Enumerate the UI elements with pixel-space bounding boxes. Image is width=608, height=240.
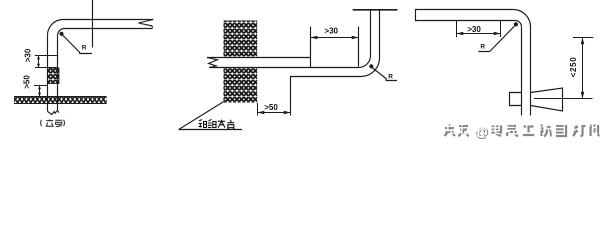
dimension line >30 horizontal [311, 37, 359, 39]
dimension >50 below wall [258, 103, 291, 116]
wire: pipe bottom line to bend [209, 67, 358, 69]
bell mouth (horn) on riser [531, 88, 563, 111]
dimension >30 [457, 21, 501, 37]
svg-text:>30: >30 [24, 48, 33, 62]
node: leader dot on bend [514, 22, 518, 26]
bottom reference line [534, 98, 593, 100]
pipe outer bend arc to riser [361, 58, 380, 77]
dimension line [582, 38, 584, 99]
wire: riser left line [370, 10, 372, 55]
pipe break symbol left end [207, 58, 218, 68]
node: leader dot on bend [59, 32, 63, 36]
svg-text:<250: <250 [569, 57, 578, 78]
leader line to bend radius R [372, 68, 397, 81]
svg-text:>50: >50 [23, 75, 32, 89]
pipe end cap left [415, 9, 417, 21]
dimension arrows >50 [38, 86, 41, 97]
floor slab band [14, 97, 107, 104]
leader line to bend radius R [478, 26, 514, 52]
svg-text:>30: >30 [467, 25, 481, 34]
insulating support block on riser [48, 68, 60, 84]
ceiling slab line [353, 9, 398, 11]
svg-text:R: R [388, 74, 393, 81]
wire: lower pipe outer line [291, 77, 362, 113]
svg-text:>50: >50 [264, 103, 278, 112]
wire: riser right line [530, 27, 532, 116]
pipe end cap / extension at sleeve end [310, 27, 312, 68]
junction box on riser [510, 93, 522, 106]
wire: top pipe lower line [416, 20, 516, 22]
wall hatch upper part [224, 21, 258, 58]
hanger rod vertical line [92, 0, 94, 48]
tick line middle (support top) [35, 67, 58, 69]
wire: pipe top line through wall [207, 57, 311, 59]
node: leader dot on bend [369, 64, 373, 68]
wire: riser left line [521, 27, 523, 116]
wire: horizontal pipe top line [62, 19, 153, 21]
pipe inner bend arc [516, 21, 522, 27]
leader line to bend radius R [63, 35, 93, 54]
tick line upper (bend tangent) [35, 55, 58, 57]
svg-text:R: R [480, 44, 485, 51]
dimension arrows >30 [37, 56, 40, 68]
pipe break symbol bottom [48, 110, 59, 114]
pipe break symbol right end [138, 20, 153, 28]
pipe outer bend arc [513, 9, 531, 27]
wall hatch lower part [224, 68, 258, 103]
wire: riser right line [379, 10, 381, 58]
wire: top pipe upper line [416, 9, 514, 11]
wire: riser left line [47, 35, 49, 111]
label 绝缘支点 (insulation support) [199, 119, 235, 129]
dimension line >50 vertical [39, 86, 41, 97]
dimension line >30 vertical [38, 56, 40, 68]
pipe outer bend arc [47, 20, 62, 36]
wire: horizontal pipe bottom line [65, 28, 153, 30]
svg-text:R: R [82, 44, 87, 51]
extension line right of >30 [358, 27, 360, 67]
wire: riser right line [57, 35, 59, 110]
leader line to label 绝缘支点 [179, 102, 242, 130]
caption (立弯) [41, 120, 65, 127]
pipe inner bend arc to riser [359, 56, 371, 68]
top tick bar [573, 37, 593, 39]
pipe inner bend arc [58, 29, 65, 36]
svg-text:>30: >30 [324, 26, 338, 35]
dimension <250 vertical [534, 38, 593, 99]
tick line lower (support bottom) [34, 85, 48, 87]
svg-text:@: @ [474, 122, 488, 138]
